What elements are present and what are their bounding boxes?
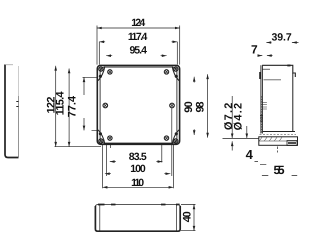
- svg-text:98: 98: [194, 102, 206, 113]
- svg-text:110: 110: [131, 177, 144, 189]
- 39.7 dim: [266, 42, 298, 44]
- left ext lines: [55, 77, 102, 146]
- top edge + right step: [262, 65, 295, 77]
- svg-text:55: 55: [274, 163, 285, 177]
- svg-text:7: 7: [251, 43, 258, 57]
- left double edge: [261, 65, 263, 133]
- svg-text:Ø4.2: Ø4.2: [233, 103, 245, 131]
- left dim 115.4: [68, 69, 70, 147]
- top dim 117.4: [99, 42, 177, 65]
- svg-text:115.4: 115.4: [54, 91, 66, 116]
- mid-edge screws: [103, 103, 174, 108]
- dia dims: [223, 41, 299, 175]
- left profile view: [5, 65, 19, 158]
- 7 dim: [258, 55, 273, 57]
- svg-text:124: 124: [131, 17, 145, 29]
- svg-text:40: 40: [182, 211, 194, 222]
- svg-text:90: 90: [183, 101, 195, 113]
- floor: [263, 131, 295, 133]
- corner pocket screws: [99, 67, 178, 143]
- inner lid outline: [100, 67, 177, 143]
- svg-text:83.5: 83.5: [129, 151, 147, 163]
- top dim 124: [97, 26, 180, 65]
- right dim 98: [207, 74, 209, 137]
- svg-text:39.7: 39.7: [271, 32, 291, 44]
- right dim 90: [193, 77, 195, 135]
- inner lid screws (4): [108, 70, 169, 141]
- svg-text:77.4: 77.4: [66, 95, 78, 117]
- inner details: [262, 68, 270, 70]
- svg-text:4: 4: [246, 147, 254, 162]
- front view outer box: [97, 65, 179, 144]
- right edge: [292, 73, 294, 132]
- left bump: [259, 72, 261, 79]
- wall hatch: [261, 96, 263, 133]
- 40 dim: [181, 204, 196, 230]
- left dim 77.4: [83, 77, 85, 130]
- svg-text:100: 100: [130, 163, 146, 175]
- bottom dim 83.5: [110, 161, 163, 163]
- bottom ext lines: [103, 108, 174, 188]
- svg-text:117.4: 117.4: [128, 31, 148, 43]
- left dim 122: [55, 66, 57, 147]
- bottom dim 100: [105, 173, 170, 175]
- bottom dim 110: [103, 186, 174, 188]
- corner pocket arcs: [98, 67, 179, 144]
- svg-text:95.4: 95.4: [129, 45, 147, 57]
- top dim 95.4: [106, 55, 166, 57]
- base plate: [259, 137, 298, 146]
